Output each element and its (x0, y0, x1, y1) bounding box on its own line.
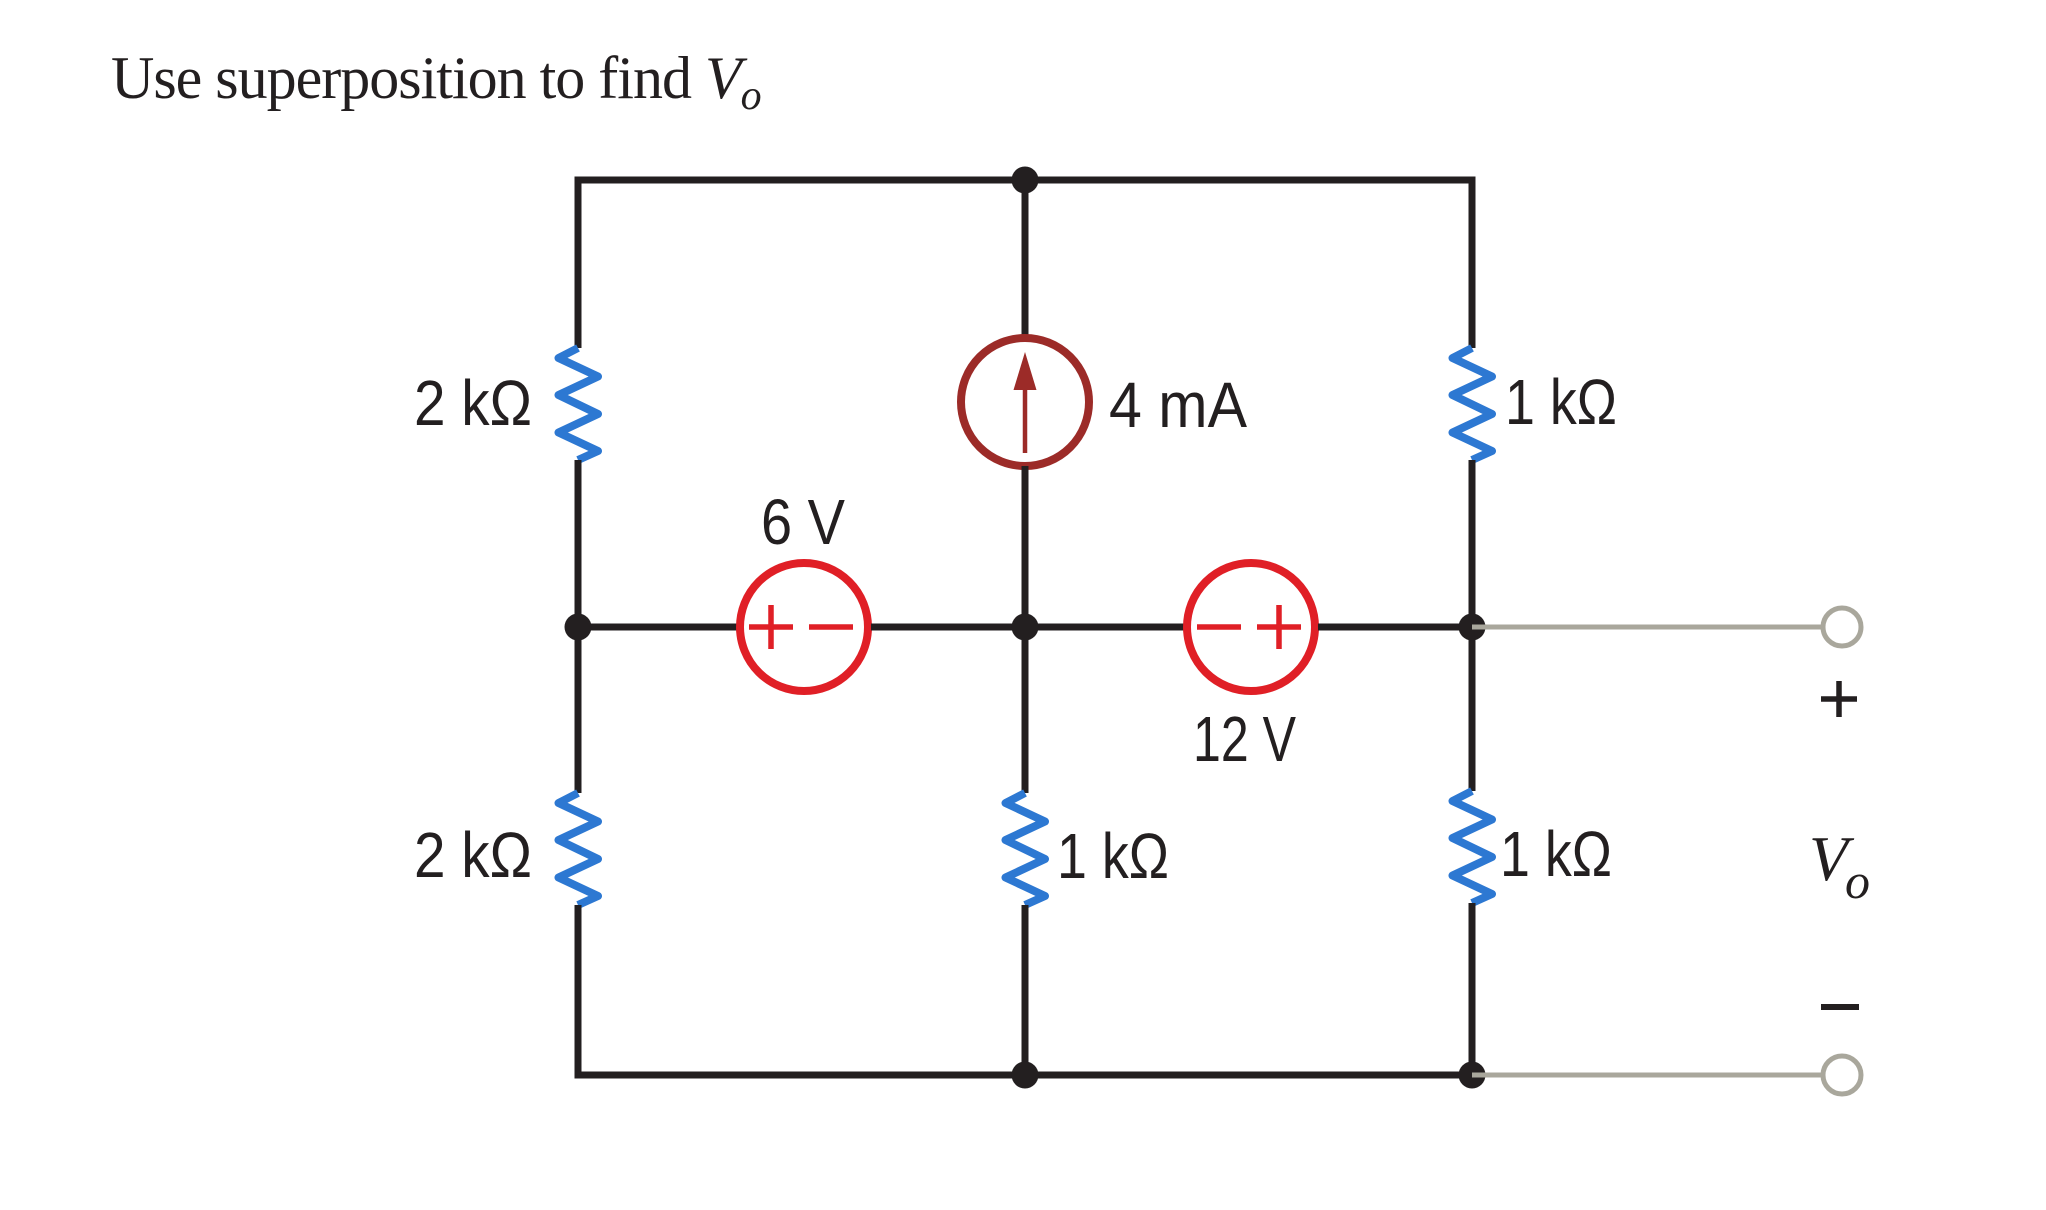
plus sign output polarity (1821, 681, 1857, 717)
node left-middle (565, 614, 592, 641)
terminal bottom (1823, 1056, 1861, 1094)
label 2 kOhm (top-left) (414, 367, 532, 439)
title: Use superposition to find Vo (111, 45, 761, 119)
resistor R1 2 kOhm (top-left) (559, 348, 599, 460)
wire right vertical top segment (1469, 177, 1476, 349)
wire middle vertical below current source (1022, 466, 1029, 627)
wire left vertical middle-to-R2 (575, 627, 582, 793)
node top-middle (1012, 167, 1039, 194)
node right-middle (1459, 614, 1486, 641)
svg-text:1 kΩ: 1 kΩ (1505, 366, 1617, 438)
svg-text:12 V: 12 V (1193, 703, 1296, 775)
svg-text:Use superposition to find Vo: Use superposition to find Vo (111, 45, 761, 119)
voltage source V1 6 V (740, 563, 868, 691)
minus sign output polarity (1821, 1004, 1859, 1010)
wire top horizontal (578, 177, 1472, 184)
label 12 V (1193, 703, 1296, 775)
wire middle vertical bottom segment (1022, 905, 1029, 1075)
label 1 kOhm (bottom-right) (1500, 818, 1612, 890)
svg-text:1 kΩ: 1 kΩ (1057, 820, 1169, 892)
terminal top (1823, 608, 1861, 646)
wire bottom horizontal (575, 1072, 1473, 1079)
wire left vertical below R1 (575, 460, 582, 627)
label 1 kOhm (bottom-middle) (1057, 820, 1169, 892)
label 6 V (761, 486, 845, 558)
resistor R4 1 kOhm (top-right) (1453, 348, 1493, 460)
wire gray output bottom (1472, 1073, 1823, 1078)
svg-text:1 kΩ: 1 kΩ (1500, 818, 1612, 890)
svg-text:2 kΩ: 2 kΩ (414, 367, 532, 439)
wire middle vertical middle-to-R3 (1022, 627, 1029, 793)
node bottom-right (1459, 1062, 1486, 1089)
wire middle horizontal 6V to center node (871, 624, 1025, 631)
label Vo output (1809, 823, 1870, 909)
svg-text:2 kΩ: 2 kΩ (414, 819, 532, 891)
wire right vertical bottom segment (1469, 903, 1476, 1075)
label 2 kOhm (bottom-left) (414, 819, 532, 891)
wire middle horizontal left-node to 6V source (578, 624, 737, 631)
current source I1 4 mA (961, 338, 1089, 466)
wire middle horizontal center node to 12V source (1025, 624, 1184, 631)
svg-text:6 V: 6 V (761, 486, 845, 558)
svg-text:o: o (1845, 853, 1870, 909)
wire right vertical below R4 (1469, 460, 1476, 627)
node bottom-middle (1012, 1062, 1039, 1089)
voltage source V2 12 V (1187, 563, 1315, 691)
resistor R2 2 kOhm (bottom-left) (559, 793, 599, 905)
resistor R5 1 kOhm (bottom-right) (1453, 791, 1493, 903)
svg-text:4 mA: 4 mA (1109, 369, 1247, 441)
wire left vertical top segment (575, 177, 582, 349)
wire middle vertical above current source (1022, 180, 1029, 338)
node center (1012, 614, 1039, 641)
wire right vertical middle-to-R5 (1469, 627, 1476, 791)
wire left vertical bottom segment (575, 905, 582, 1079)
resistor R3 1 kOhm (bottom-middle) (1006, 793, 1046, 905)
label 1 kOhm (top-right) (1505, 366, 1617, 438)
wire middle horizontal 12V to right node (1318, 624, 1472, 631)
wire gray output top (1472, 625, 1823, 630)
label 4 mA (1109, 369, 1247, 441)
